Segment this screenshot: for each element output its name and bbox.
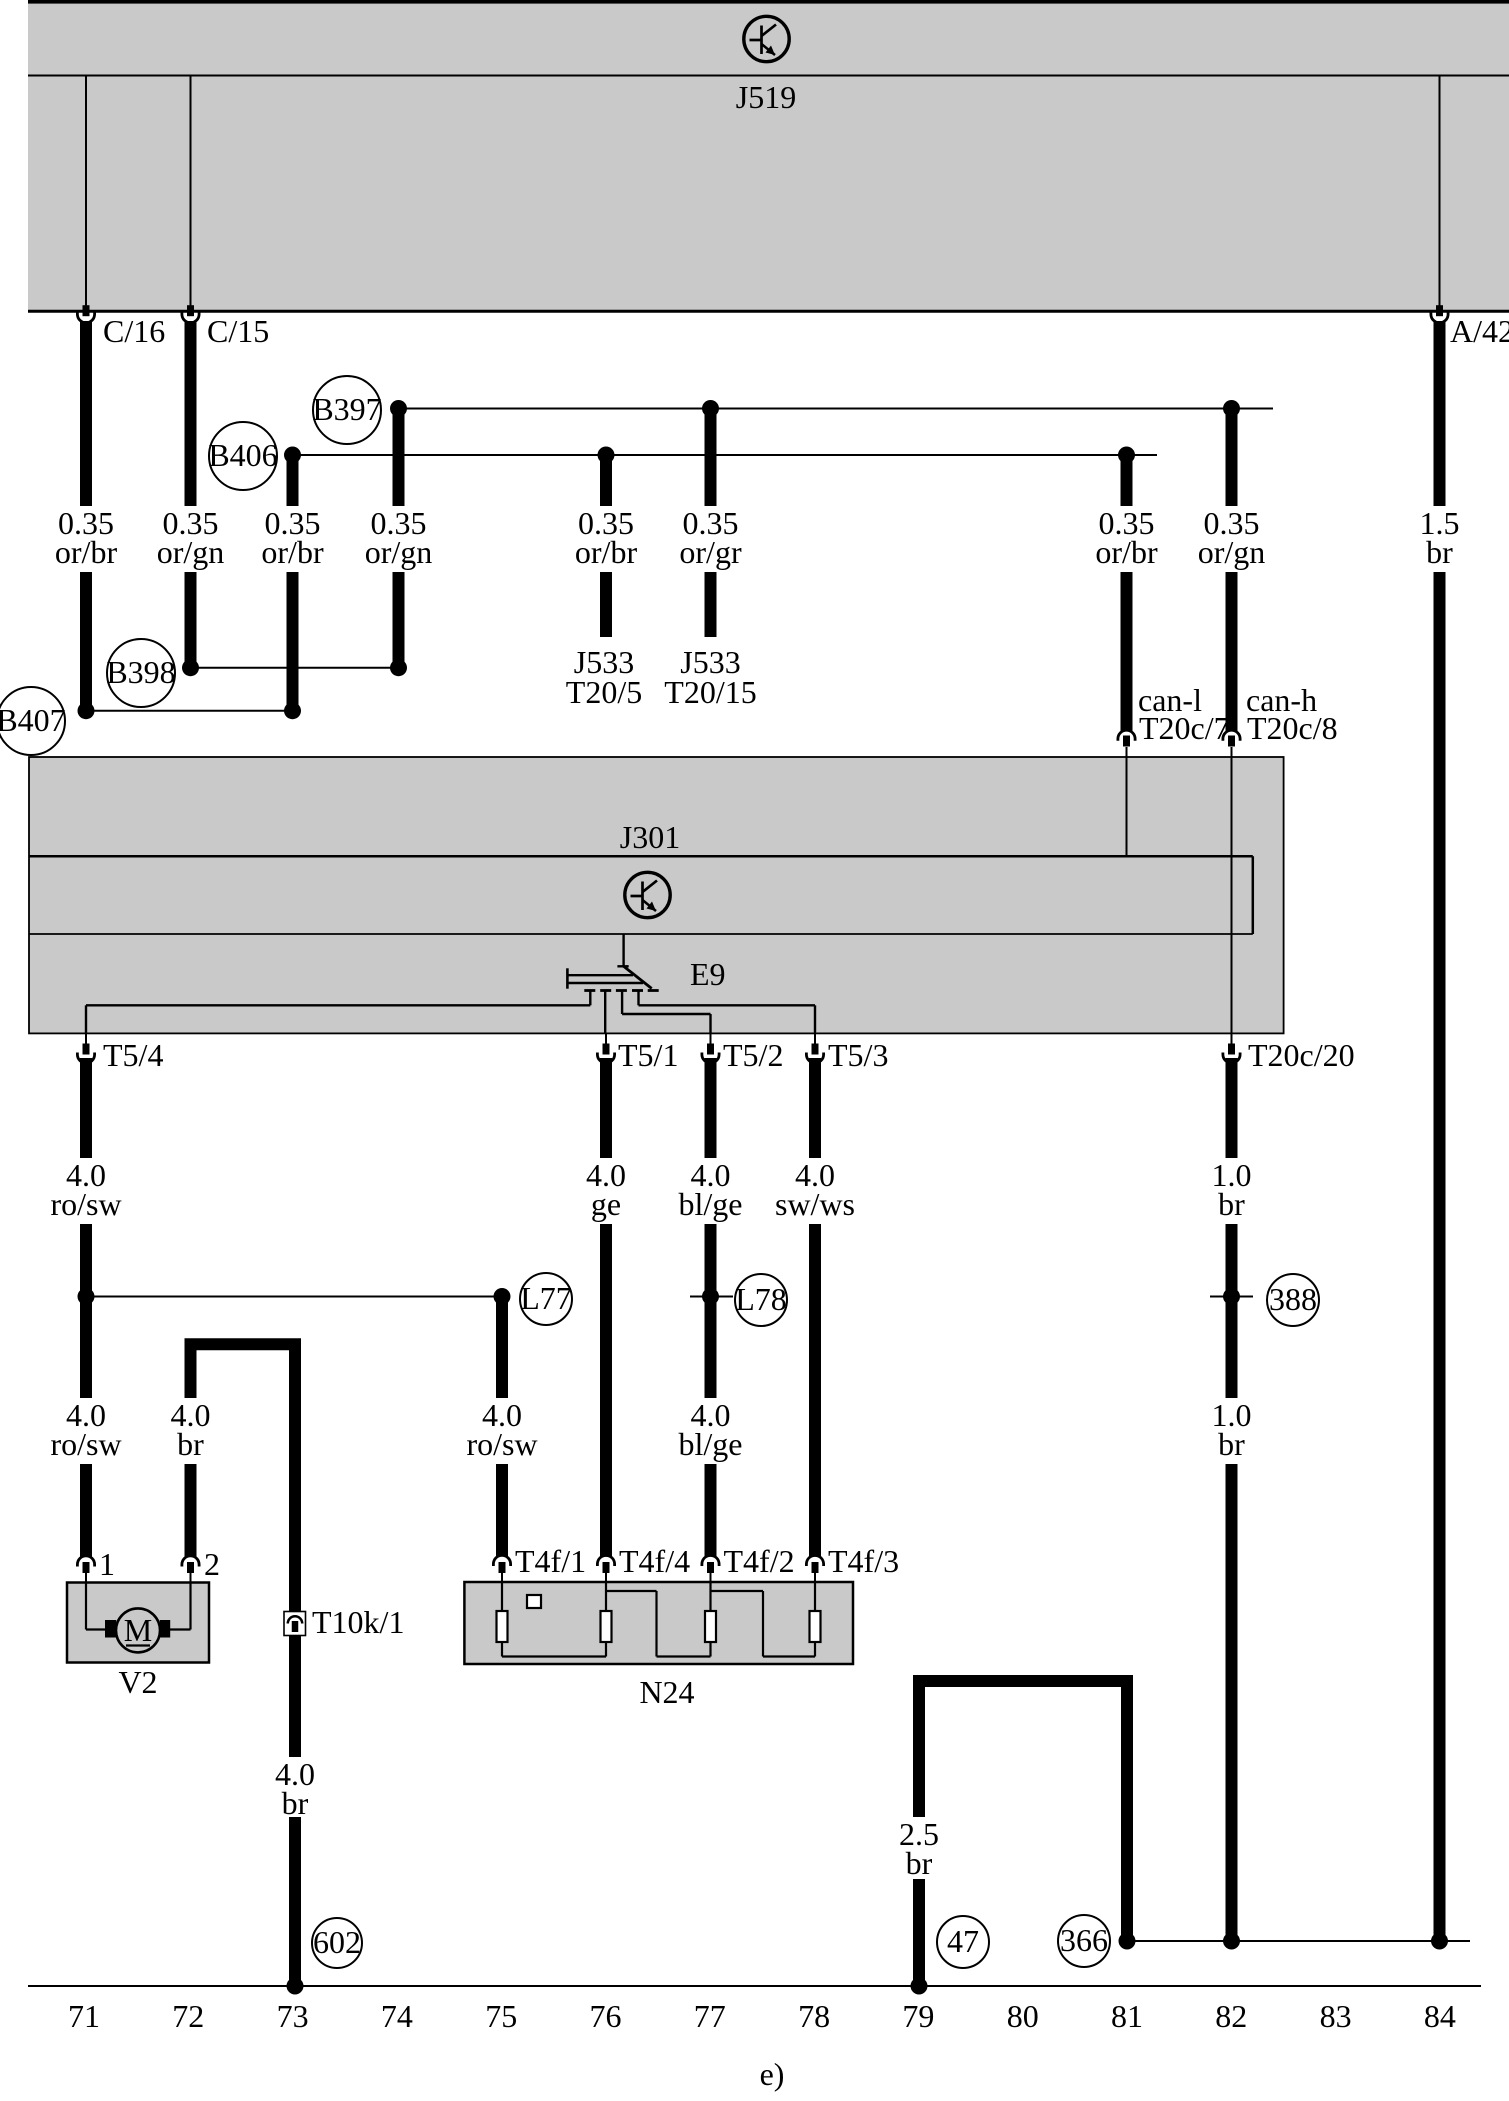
svg-text:388: 388 bbox=[1269, 1281, 1317, 1317]
wire 0.35 or/gn can-h to T20c/8 bbox=[1226, 408, 1238, 731]
value label 4.0 ge bbox=[580, 1158, 632, 1224]
svg-text:C/15: C/15 bbox=[207, 313, 269, 349]
svg-text:B397: B397 bbox=[312, 391, 381, 427]
svg-text:T20c/20: T20c/20 bbox=[1248, 1037, 1355, 1073]
wire 2.5 br ground bridge (tracks 79-81) bbox=[919, 1681, 1127, 1986]
svg-text:T20c/7: T20c/7 bbox=[1139, 710, 1230, 746]
svg-text:B406: B406 bbox=[208, 437, 277, 473]
value label 1.0 br (lower) bbox=[1206, 1398, 1258, 1464]
svg-text:72: 72 bbox=[172, 1998, 204, 2034]
connector pin 2 (V2) bbox=[182, 1556, 199, 1567]
svg-text:br: br bbox=[1426, 534, 1453, 570]
svg-text:76: 76 bbox=[590, 1998, 622, 2034]
value label 2.5 br (track 79) bbox=[893, 1817, 945, 1879]
svg-text:or/gn: or/gn bbox=[157, 534, 225, 570]
motor brushes bbox=[105, 1620, 116, 1638]
svg-text:bl/ge: bl/ge bbox=[679, 1186, 743, 1222]
wire E9 to T5/4 (inside J301) bbox=[589, 991, 591, 1005]
wire 0.35 or/gn from C/15 down to node B398 bbox=[185, 321, 197, 668]
value label 4.0 br (track 72) bbox=[165, 1398, 217, 1464]
wire 4.0 ro/sw from L77 to T4f/1 bbox=[496, 1297, 508, 1557]
connector pin T5/4 bbox=[85, 1033, 87, 1044]
value label 4.0 bl/ge (upper) bbox=[672, 1158, 750, 1224]
node L78 junction bbox=[690, 1296, 733, 1298]
value label 1.5 br (A/42 wire) bbox=[1414, 506, 1466, 572]
svg-text:71: 71 bbox=[68, 1998, 100, 2034]
svg-text:ro/sw: ro/sw bbox=[50, 1186, 121, 1222]
svg-text:81: 81 bbox=[1111, 1998, 1143, 2034]
svg-text:N24: N24 bbox=[639, 1674, 694, 1710]
svg-text:83: 83 bbox=[1320, 1998, 1352, 2034]
svg-text:or/br: or/br bbox=[575, 534, 638, 570]
value label 0.35 or/gr (track 77) bbox=[675, 506, 747, 572]
value label 0.35 or/br (track 76) bbox=[570, 506, 642, 572]
ECU J301 air conditioner control unit box bbox=[29, 757, 1284, 1033]
wire 0.35 or/br can-l to T20c/7 bbox=[1121, 455, 1133, 732]
svg-text:br: br bbox=[1218, 1186, 1245, 1222]
wire E9 to T5/1 (inside J301) bbox=[604, 991, 606, 1033]
connector pin T4f/4 bbox=[597, 1555, 614, 1566]
svg-text:ro/sw: ro/sw bbox=[466, 1426, 537, 1462]
svg-text:ge: ge bbox=[591, 1186, 621, 1222]
svg-text:L77: L77 bbox=[520, 1280, 572, 1316]
svg-text:ro/sw: ro/sw bbox=[50, 1426, 121, 1462]
value label 4.0 ro/sw (track 75) bbox=[463, 1398, 541, 1464]
node B398 bbox=[106, 639, 175, 707]
svg-text:V2: V2 bbox=[118, 1664, 157, 1700]
connector pin C/15 bbox=[187, 305, 194, 316]
wire 0.35 or/br from node B406 down to node B407 bbox=[287, 455, 299, 711]
svg-text:74: 74 bbox=[381, 1998, 413, 2034]
svg-text:T5/4: T5/4 bbox=[103, 1037, 163, 1073]
wire 0.35 or/gr to J533 T20/15 bbox=[705, 408, 717, 637]
motor V2 fresh air blower box bbox=[67, 1583, 209, 1663]
wire V2 pin2 to brush bbox=[189, 1583, 191, 1630]
node 602 (ground connection) bbox=[312, 1918, 362, 1968]
svg-text:e): e) bbox=[760, 2056, 785, 2092]
wire 4.0 sw/ws from T5/3 to T4f/3 bbox=[809, 1058, 821, 1557]
svg-text:T20/5: T20/5 bbox=[566, 674, 642, 710]
node B407 bbox=[0, 687, 66, 755]
svg-text:T4f/3: T4f/3 bbox=[828, 1543, 899, 1579]
inline connector T10k/1 bbox=[284, 1612, 306, 1636]
value label 0.35 or/br (track 71) bbox=[50, 506, 122, 572]
svg-text:80: 80 bbox=[1007, 1998, 1039, 2034]
connector pin T5/3 bbox=[814, 1033, 816, 1044]
value label 0.35 or/gn (can-h) bbox=[1196, 506, 1268, 572]
wire 4.0 br from V2 pin 2 over bridge through T10k/1 to ground bbox=[191, 1344, 296, 1986]
svg-text:T20/15: T20/15 bbox=[664, 674, 756, 710]
svg-text:br: br bbox=[282, 1785, 309, 1821]
svg-text:T10k/1: T10k/1 bbox=[312, 1604, 404, 1640]
svg-text:J301: J301 bbox=[620, 819, 680, 855]
value label 4.0 ro/sw (track 71, lower) bbox=[47, 1398, 125, 1464]
wire V2 pin1 to brush bbox=[85, 1583, 87, 1630]
svg-text:bl/ge: bl/ge bbox=[679, 1426, 743, 1462]
value label 0.35 or/br (can-l) bbox=[1091, 506, 1163, 572]
svg-text:J519: J519 bbox=[736, 79, 796, 115]
svg-text:47: 47 bbox=[947, 1923, 979, 1959]
svg-text:T5/1: T5/1 bbox=[618, 1037, 678, 1073]
wire: junction line L77 bbox=[86, 1296, 502, 1298]
svg-text:sw/ws: sw/ws bbox=[775, 1186, 855, 1222]
wire inside J519 to pin C/15 bbox=[190, 76, 192, 307]
svg-text:br: br bbox=[906, 1845, 933, 1881]
wire: node line 366 bbox=[1127, 1940, 1470, 1942]
svg-text:E9: E9 bbox=[690, 956, 726, 992]
connector pin A/42 bbox=[1436, 305, 1443, 316]
svg-text:78: 78 bbox=[798, 1998, 830, 2034]
svg-text:73: 73 bbox=[277, 1998, 309, 2034]
node 47 bbox=[937, 1916, 989, 1968]
transistor symbol (K) in J519 bbox=[744, 16, 789, 61]
connector pin T4f/1 bbox=[493, 1555, 510, 1566]
resistor pack N24 box bbox=[464, 1582, 853, 1664]
value label 0.35 or/br (track 73) bbox=[257, 506, 329, 572]
svg-text:B398: B398 bbox=[106, 654, 175, 690]
svg-text:75: 75 bbox=[485, 1998, 517, 2034]
connector pin T5/2 bbox=[710, 1033, 712, 1044]
svg-text:or/gn: or/gn bbox=[1198, 534, 1266, 570]
resistor R (N24 element 4) bbox=[810, 1611, 821, 1642]
svg-text:T4f/4: T4f/4 bbox=[619, 1543, 690, 1579]
connector pin T20c/20 bbox=[1231, 1033, 1233, 1044]
wire 0.35 or/br from C/16 down to node B407 bbox=[80, 321, 92, 711]
wire can-h / T20c/20 inside J301 bbox=[1231, 757, 1233, 1044]
svg-text:2: 2 bbox=[204, 1546, 220, 1582]
wire 0.35 or/gn from node B397 down to node B398 bbox=[393, 408, 405, 668]
N24 internal wiring bbox=[502, 1582, 815, 1657]
svg-text:T5/3: T5/3 bbox=[828, 1037, 888, 1073]
svg-text:79: 79 bbox=[902, 1998, 934, 2034]
svg-text:84: 84 bbox=[1424, 1998, 1456, 2034]
connector pin C/16 bbox=[83, 305, 90, 316]
wire 4.0 bl/ge from T5/2 to T4f/2 bbox=[705, 1058, 717, 1557]
wire 1.0 br from T20c/20 to ground node 366 bbox=[1226, 1058, 1238, 1941]
value label 0.35 or/gn (track 74) bbox=[363, 506, 435, 572]
connector pin T4f/3 bbox=[806, 1555, 823, 1566]
wire E9 to T5/2 (inside J301) bbox=[621, 991, 623, 1014]
value label 4.0 bl/ge (lower) bbox=[672, 1398, 750, 1464]
transistor symbol (K) in J301 bbox=[625, 872, 670, 917]
svg-text:C/16: C/16 bbox=[103, 313, 165, 349]
svg-text:77: 77 bbox=[694, 1998, 726, 2034]
wire 1.5 br from A/42 down to ground line node 366 bbox=[1434, 321, 1446, 1941]
svg-text:1: 1 bbox=[99, 1546, 115, 1582]
resistor R (N24 element 3) bbox=[705, 1611, 716, 1642]
svg-text:br: br bbox=[1218, 1426, 1245, 1462]
value label 4.0 ro/sw (track 71, upper) bbox=[47, 1158, 125, 1224]
wire: node line B397 bbox=[399, 408, 1274, 410]
wire: node line B398 bbox=[191, 667, 399, 669]
wire: node line B406 bbox=[293, 454, 1158, 456]
svg-text:L78: L78 bbox=[735, 1281, 787, 1317]
ECU J519 onboard supply control unit box bbox=[28, 2, 1509, 312]
value label 4.0 br (track 73) bbox=[269, 1757, 321, 1817]
connector T20c/7 (can-l into J301) bbox=[1118, 730, 1135, 741]
svg-text:T20c/8: T20c/8 bbox=[1247, 710, 1338, 746]
node L77 bbox=[520, 1273, 572, 1325]
svg-text:br: br bbox=[177, 1426, 204, 1462]
track numbers 71-84 bbox=[68, 1998, 1456, 2034]
node 388 junction bbox=[1210, 1296, 1253, 1298]
value label 4.0 sw/ws bbox=[772, 1158, 858, 1224]
svg-text:or/br: or/br bbox=[1095, 534, 1158, 570]
ground rail line bbox=[28, 1985, 1481, 1987]
connector pin T4f/2 bbox=[702, 1555, 719, 1566]
wire 0.35 or/br to J533 T20/5 bbox=[600, 455, 612, 638]
svg-text:602: 602 bbox=[313, 1924, 361, 1960]
node B397 bbox=[312, 376, 381, 444]
connector T20c/8 (can-h into J301) bbox=[1223, 730, 1240, 741]
connector pin T5/1 bbox=[605, 1033, 607, 1044]
connector pin 1 (V2) bbox=[77, 1556, 94, 1567]
wire: node line B407 bbox=[86, 710, 293, 712]
motor symbol M bbox=[116, 1608, 160, 1652]
svg-text:M: M bbox=[124, 1612, 152, 1648]
value label 1.0 br (upper) bbox=[1206, 1158, 1258, 1224]
svg-text:T4f/1: T4f/1 bbox=[515, 1543, 586, 1579]
svg-text:or/gr: or/gr bbox=[679, 534, 742, 570]
node B406 bbox=[208, 422, 277, 490]
svg-text:T4f/2: T4f/2 bbox=[724, 1543, 795, 1579]
svg-text:B407: B407 bbox=[0, 702, 66, 738]
svg-text:or/br: or/br bbox=[55, 534, 118, 570]
thermal fuse symbol in N24 bbox=[527, 1595, 541, 1608]
resistor R (N24 element 1) bbox=[497, 1611, 508, 1642]
wire 4.0 ro/sw from T5/4 to V2 pin 1 bbox=[80, 1058, 92, 1557]
svg-text:or/br: or/br bbox=[261, 534, 324, 570]
heater element / switch E9 bbox=[567, 934, 658, 991]
wire 4.0 ge from T5/1 to T4f/4 bbox=[600, 1058, 612, 1557]
svg-text:A/42: A/42 bbox=[1450, 313, 1509, 349]
wire inside J519 to pin A/42 bbox=[1439, 76, 1441, 307]
wire E9 to T5/3 (inside J301) bbox=[637, 991, 639, 1005]
wire inside J519 to pin C/16 bbox=[85, 76, 87, 307]
value label 0.35 or/gn (track 72) bbox=[155, 506, 227, 572]
svg-text:or/gn: or/gn bbox=[365, 534, 433, 570]
svg-text:82: 82 bbox=[1215, 1998, 1247, 2034]
svg-text:366: 366 bbox=[1060, 1922, 1108, 1958]
node 366 bbox=[1058, 1915, 1110, 1967]
resistor R (N24 element 2) bbox=[601, 1611, 612, 1642]
svg-text:T5/2: T5/2 bbox=[723, 1037, 783, 1073]
wire can-l inside J301 bbox=[1126, 757, 1128, 857]
